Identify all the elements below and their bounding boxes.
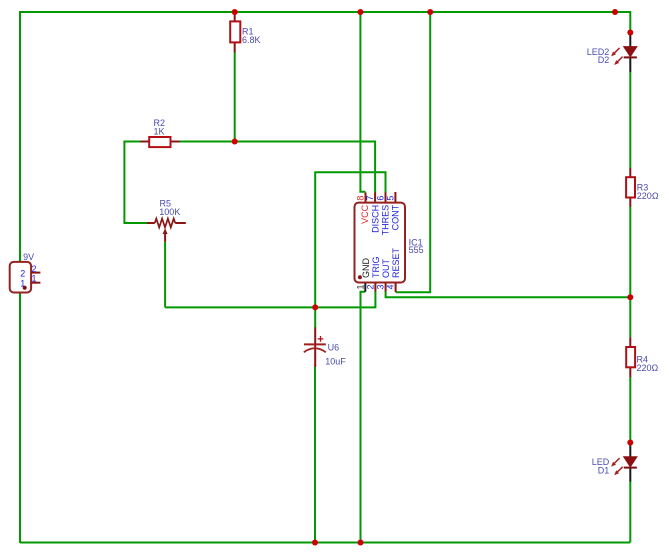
svg-text:9V: 9V (23, 252, 34, 262)
junction GND bottom (358, 540, 364, 546)
svg-text:8: 8 (356, 196, 366, 201)
resistor R4 (626, 337, 658, 377)
wire bottom rail (20, 542, 630, 544)
wire left rail lower (battery to bottom) (19, 293, 21, 544)
svg-text:10uF: 10uF (325, 357, 346, 367)
svg-text:D2: D2 (598, 55, 610, 65)
svg-text:100K: 100K (159, 207, 180, 217)
pin 8 stub (365, 192, 367, 202)
resistor R2 (140, 118, 179, 147)
svg-text:220Ω: 220Ω (637, 363, 659, 373)
junction TRIG capacitor node (312, 304, 318, 310)
svg-text:D1: D1 (598, 466, 610, 476)
svg-text:6.8K: 6.8K (242, 35, 261, 45)
battery pin 2 stub (31, 272, 40, 274)
battery pin 1 stub (31, 282, 40, 284)
svg-text:2: 2 (366, 285, 376, 290)
wire LED2 to R3 (629, 72, 631, 169)
pin 6 stub (385, 192, 387, 202)
wire VCC branch (top rail to pin 8) (360, 12, 365, 192)
wire RESET branch (top rail down, left to pin 4) (396, 12, 431, 292)
svg-text:DISCH: DISCH (371, 205, 381, 233)
wire TRIG rail (R5 to pin 2) (165, 291, 375, 307)
svg-text:555: 555 (409, 245, 424, 255)
junction capacitor bottom (312, 540, 318, 546)
svg-text:CONT: CONT (391, 204, 401, 230)
resistor R1 (230, 12, 260, 53)
battery connector 9V (10, 252, 41, 293)
resistor R3 (626, 168, 659, 207)
svg-text:6: 6 (375, 196, 385, 201)
pin 7 stub (374, 192, 376, 202)
junction OUT LED chain (627, 294, 633, 300)
junction VCC top (357, 9, 363, 15)
svg-text:3: 3 (376, 285, 386, 290)
wire THRES branch (junction up and right to pin 6) (315, 172, 385, 307)
wire top rail (20, 11, 630, 13)
svg-text:7: 7 (365, 196, 375, 201)
svg-text:OUT: OUT (381, 259, 391, 279)
pin 1 marker dot (358, 275, 362, 279)
potentiometer R5 (147, 199, 186, 242)
junction RESET top (427, 9, 433, 15)
pin 3 stub (385, 283, 387, 292)
junction LED2 anode (627, 30, 633, 36)
junction R1 top (232, 9, 238, 15)
pin 5 stub (394, 192, 396, 203)
plus sign (318, 336, 324, 342)
svg-text:2: 2 (20, 268, 25, 278)
wire R3 to R4 (through OUT junction) (629, 207, 631, 338)
svg-text:GND: GND (361, 258, 371, 279)
junction top right (612, 9, 618, 15)
junction D1 anode (627, 440, 633, 446)
pin 4 stub (395, 283, 397, 293)
svg-text:TRIG: TRIG (371, 257, 381, 279)
wire R2 left down to R5 (124, 142, 147, 224)
svg-text:1: 1 (355, 285, 365, 290)
capacitor U6 (304, 328, 346, 368)
wire GND branch (pin 1 down to bottom rail) (361, 292, 366, 543)
wire R1 branch lower (R1 to R2 rail) (234, 52, 236, 142)
svg-text:1: 1 (32, 273, 37, 283)
LED D2 (587, 33, 637, 72)
LED D2 emission arrows (614, 48, 620, 54)
wire right rail top segment (corner to LED2) (629, 11, 631, 33)
wire DISCH rail (R2 right to pin 7) (180, 142, 376, 193)
wire capacitor bottom (U6 to bottom rail) (314, 367, 316, 544)
wire left rail upper (to battery) (19, 11, 21, 262)
junction R1 bottom (232, 139, 238, 145)
pin 2 stub (374, 283, 376, 292)
svg-text:U6: U6 (328, 342, 340, 352)
IC U1 555 (355, 192, 424, 292)
wire R5 wiper down to TRIG rail (164, 242, 166, 308)
wire R4 to LED D1 (629, 377, 631, 443)
svg-text:4: 4 (386, 285, 396, 290)
LED D1 emission arrows (614, 458, 620, 464)
svg-text:5: 5 (386, 196, 396, 201)
LED D1 (592, 443, 637, 482)
IC body (355, 203, 406, 283)
wire capacitor top (junction down to U6) (314, 307, 316, 328)
svg-text:RESET: RESET (391, 247, 401, 278)
svg-text:220Ω: 220Ω (637, 191, 659, 201)
wire D1 to bottom rail (629, 481, 631, 543)
battery pin1 marker dot (23, 286, 27, 290)
pin 1 stub (364, 283, 366, 292)
svg-text:1K: 1K (154, 126, 165, 136)
wire OUT branch (pin 3 to LED chain) (386, 291, 631, 297)
svg-text:THRES: THRES (381, 205, 391, 236)
svg-text:VCC: VCC (360, 204, 370, 224)
